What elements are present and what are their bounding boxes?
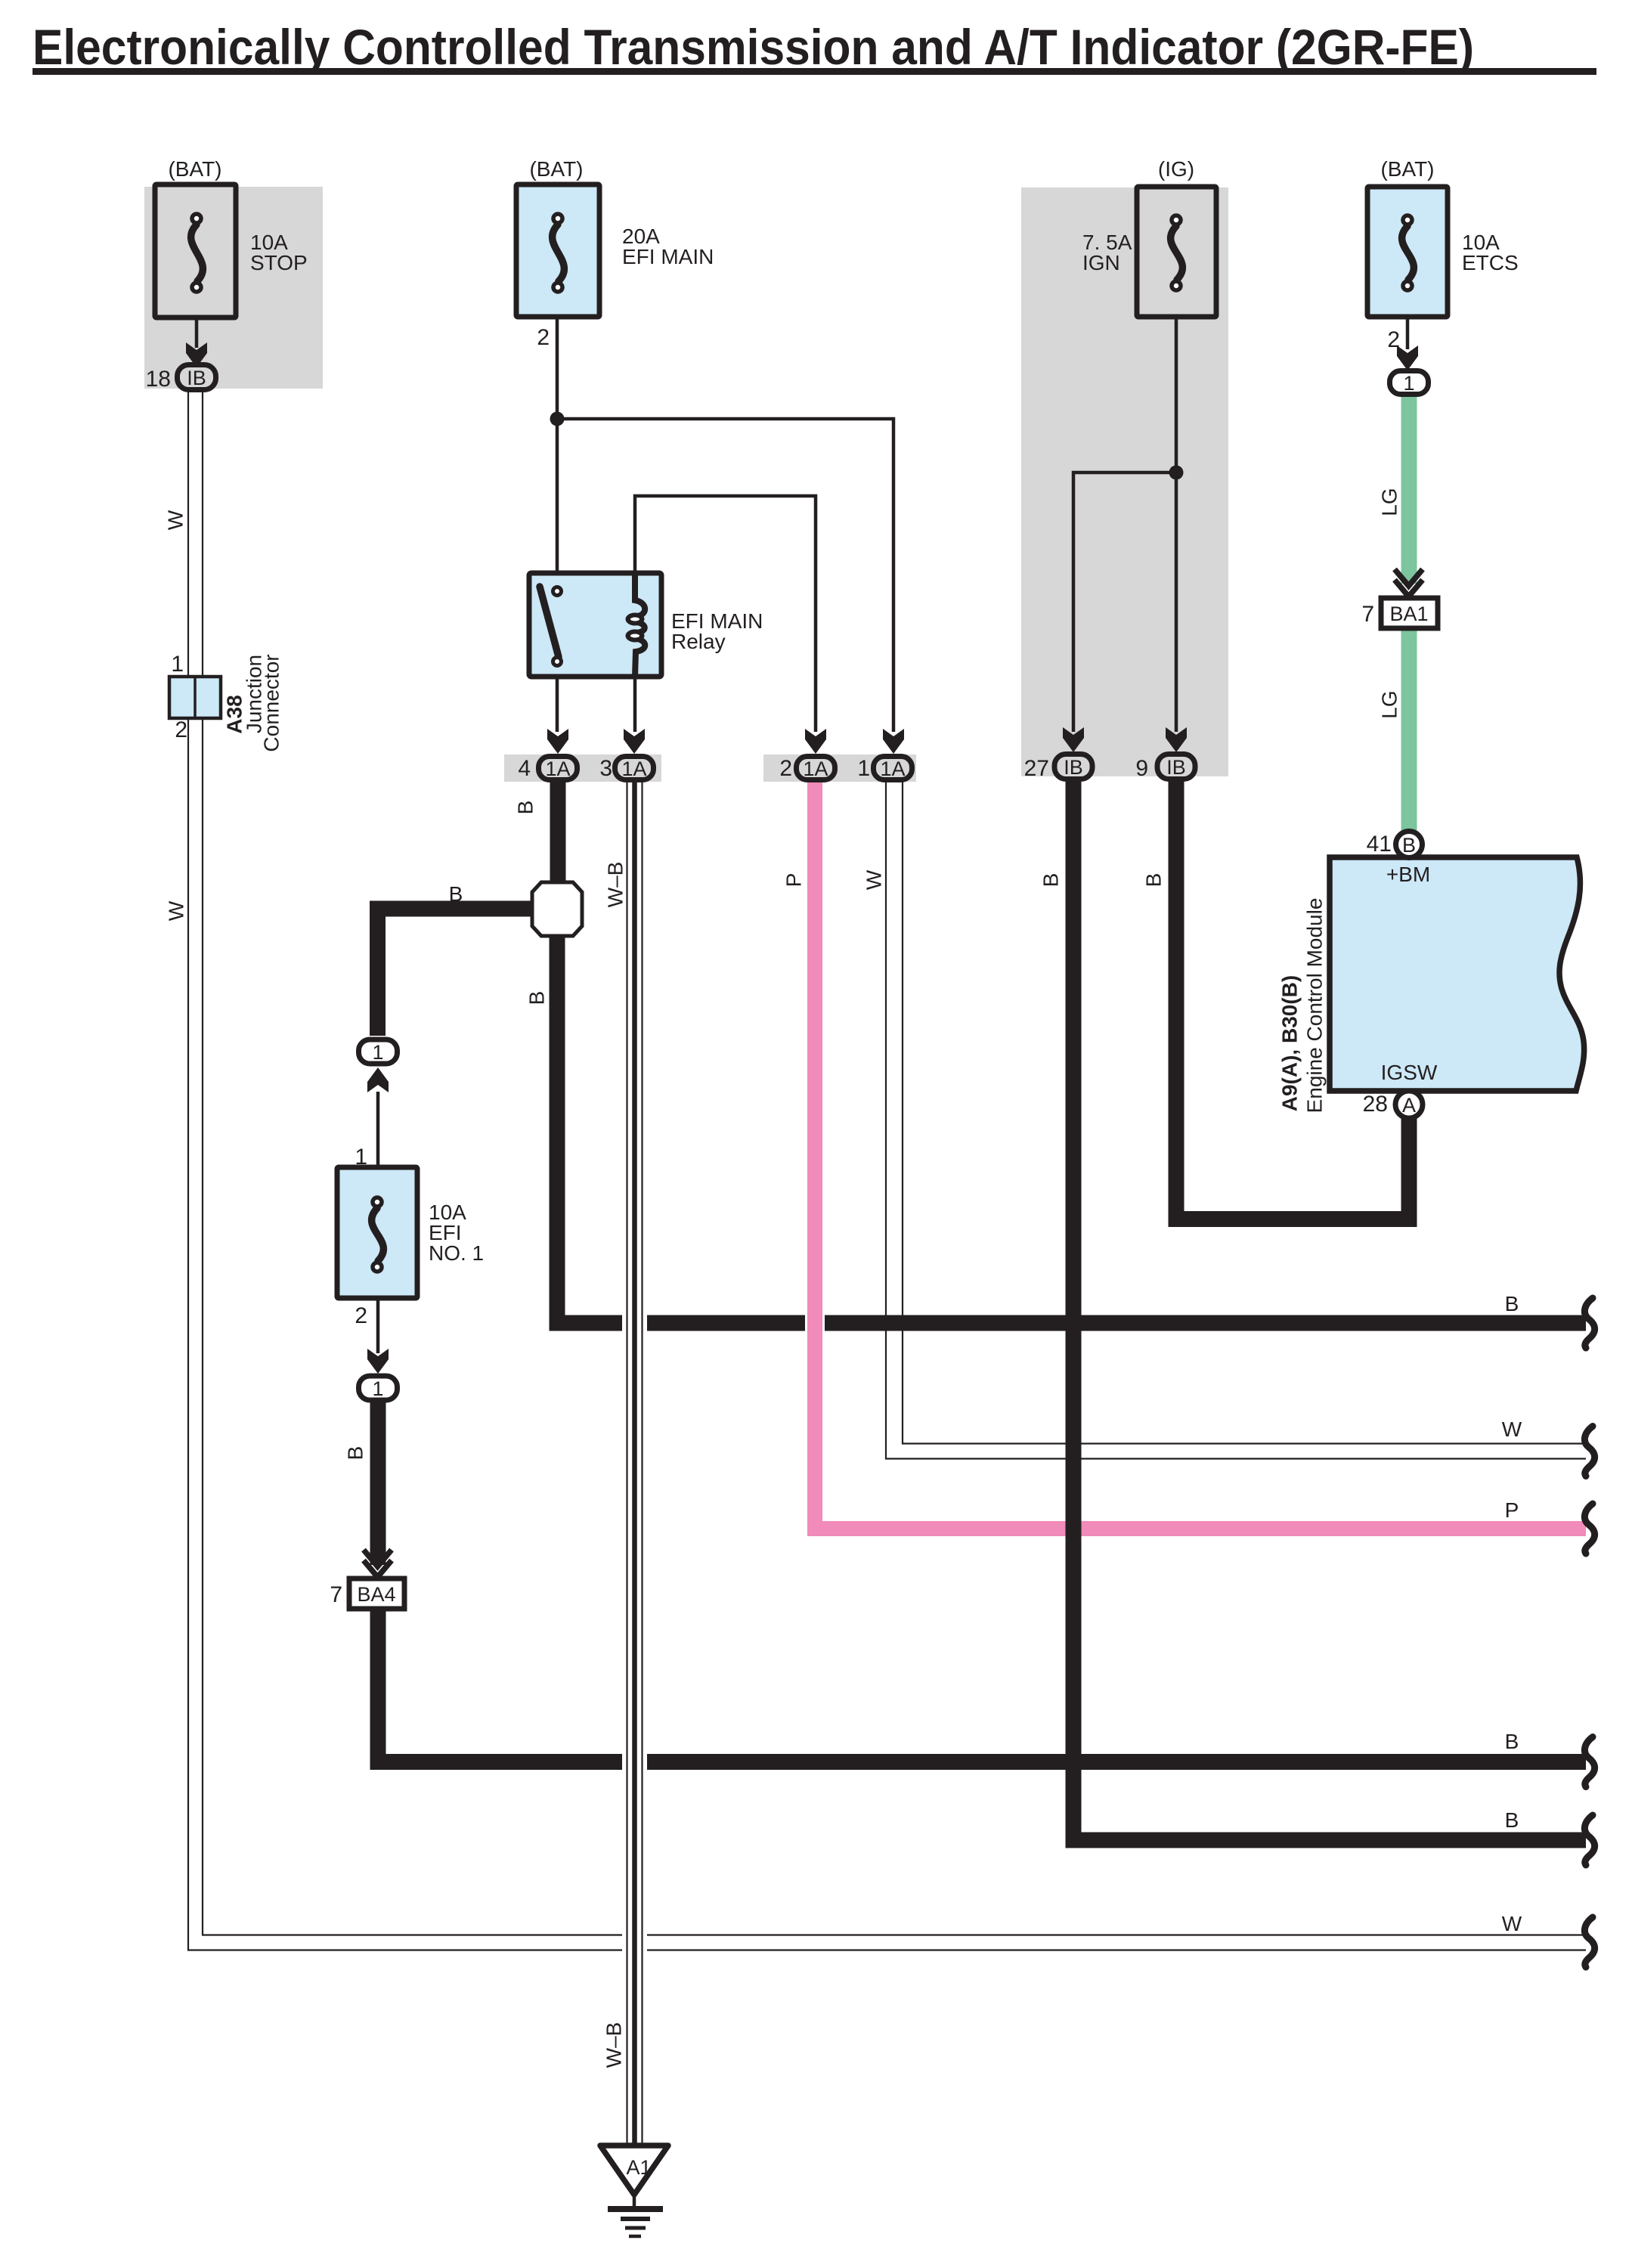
svg-text:W: W xyxy=(1502,1912,1522,1935)
svg-text:W–B: W–B xyxy=(602,2022,625,2068)
arrow into connector 1 below ETCS fuse xyxy=(1397,345,1418,370)
wire from ETCS fuse pin 2 to connector 1 xyxy=(1406,315,1410,349)
svg-text:A: A xyxy=(1402,1094,1416,1117)
svg-text:1A: 1A xyxy=(803,758,828,780)
double chevron into BA1 xyxy=(1395,569,1423,586)
svg-text:NO. 1: NO. 1 xyxy=(429,1241,484,1265)
ground bar 4 xyxy=(629,2235,641,2239)
connector BA4 box xyxy=(349,1579,404,1609)
ECM: Engine Control Module box xyxy=(1330,857,1584,1091)
svg-text:1A: 1A xyxy=(880,758,905,780)
svg-text:A1: A1 xyxy=(626,2156,651,2179)
wire P white outline xyxy=(815,780,1586,1529)
svg-text:1: 1 xyxy=(355,1145,367,1170)
svg-text:B: B xyxy=(1402,834,1416,857)
title underline xyxy=(33,68,1596,75)
wire LG from BA1 to ECM pin 41 xyxy=(1401,629,1417,832)
wire from relay switch bottom to connector 1A pin 4 xyxy=(556,675,559,732)
connector oval IB pin 18 xyxy=(178,365,216,390)
arrow into connector 1 below EFI NO.1 fuse xyxy=(367,1349,389,1374)
connector oval 1A pin 1 xyxy=(874,757,912,780)
svg-text:1A: 1A xyxy=(545,758,570,780)
wire W-B black stripe xyxy=(632,780,637,2146)
fuse 10A ETCS xyxy=(1367,187,1448,317)
svg-text:IGSW: IGSW xyxy=(1381,1061,1438,1084)
svg-text:(BAT): (BAT) xyxy=(1380,157,1434,181)
wire B branch from octagon left, down to connector 1 xyxy=(378,909,536,1036)
wire from IGN fuse down to connector IB pin 9 xyxy=(1175,315,1178,732)
arrow into connector 1A pin 2 xyxy=(805,729,826,754)
ground bar 2 xyxy=(621,2217,650,2221)
svg-text:2: 2 xyxy=(1387,327,1400,352)
svg-text:IB: IB xyxy=(187,367,206,389)
svg-text:W–B: W–B xyxy=(603,862,627,908)
svg-text:B: B xyxy=(1039,873,1062,888)
connector oval 1 below EFI NO.1 xyxy=(359,1376,398,1400)
svg-text:IB: IB xyxy=(1166,756,1186,779)
svg-text:41: 41 xyxy=(1367,832,1392,857)
svg-text:1: 1 xyxy=(171,652,184,677)
svg-text:1: 1 xyxy=(1403,372,1414,395)
wire W from IB pin 18 down and right to edge (right line) xyxy=(203,391,1586,1935)
wire break squiggle W line xyxy=(1584,1427,1594,1476)
arrow into connector 1A pin 1 xyxy=(883,729,904,754)
wire from EFI MAIN fuse pin 2 down to EFI MAIN relay switch xyxy=(556,315,559,575)
svg-text:27: 27 xyxy=(1024,756,1049,781)
svg-text:B: B xyxy=(513,801,537,815)
wire W from IB pin 18 down and right to edge (left line) xyxy=(188,391,1586,1950)
connector oval 1 below ETCS xyxy=(1390,371,1429,395)
wire B from octagon junction down then right to edge xyxy=(557,931,1586,1323)
relay switch top contact xyxy=(553,587,562,596)
svg-text:Electronically Controlled Tran: Electronically Controlled Transmission a… xyxy=(33,19,1474,75)
wire from EFI NO.1 fuse pin 2 to connector 1 xyxy=(376,1297,380,1353)
arrow into connector 1 above EFI NO.1 fuse xyxy=(367,1067,389,1092)
svg-text:Relay: Relay xyxy=(671,630,726,653)
arrow into connector IB pin 27 xyxy=(1063,727,1084,752)
svg-text:9: 9 xyxy=(1135,756,1148,781)
svg-text:STOP: STOP xyxy=(250,251,308,274)
junction node on IGN feed xyxy=(1169,466,1184,480)
gray panel: IGN fuse block xyxy=(1021,187,1228,776)
svg-text:IGN: IGN xyxy=(1082,251,1120,274)
wire from STOP fuse to connector IB pin 18 xyxy=(195,316,199,348)
svg-text:4: 4 xyxy=(518,756,531,781)
svg-text:(IG): (IG) xyxy=(1158,157,1194,181)
svg-text:(BAT): (BAT) xyxy=(529,157,583,181)
svg-text:EFI MAIN: EFI MAIN xyxy=(622,245,714,268)
ECM pin 41 circle B xyxy=(1396,832,1423,858)
svg-text:B: B xyxy=(343,1446,367,1461)
connector oval 1A pin 2 xyxy=(797,757,835,780)
svg-text:7: 7 xyxy=(330,1582,342,1607)
relay coil xyxy=(635,573,645,616)
arrow into connector IB pin 9 xyxy=(1166,727,1187,752)
gray strip: connector 1A row left xyxy=(504,754,661,782)
connector oval 1A pin 4 xyxy=(539,757,578,780)
svg-text:2: 2 xyxy=(537,325,550,350)
wire W-B left line xyxy=(626,780,627,2146)
wire branch from IGN node to connector IB pin 27 xyxy=(1073,472,1176,732)
gray strip: connector 1A row right xyxy=(763,754,916,782)
wire W-B right line xyxy=(641,780,643,2146)
connector BA1 box xyxy=(1381,598,1438,628)
wire from relay coil bottom to connector 1A pin 3 xyxy=(633,675,637,732)
svg-text:B: B xyxy=(1505,1730,1519,1753)
wire W from connector 1A pin 1 down and right to edge (right line) xyxy=(903,780,1586,1444)
svg-text:B: B xyxy=(525,991,548,1005)
svg-text:A9(A), B30(B): A9(A), B30(B) xyxy=(1277,975,1301,1111)
svg-text:W: W xyxy=(1502,1417,1522,1441)
ground stem xyxy=(633,2193,636,2206)
svg-text:P: P xyxy=(1505,1498,1519,1522)
svg-text:18: 18 xyxy=(146,367,171,392)
relay switch bottom contact xyxy=(553,658,562,666)
wire B from connector 1 to BA4 chevron xyxy=(370,1402,386,1565)
junction connector A38 divider xyxy=(194,677,197,718)
wire break squiggle B line 3 xyxy=(1584,1815,1594,1865)
junction connector A38 xyxy=(169,677,221,718)
svg-text:1: 1 xyxy=(372,1377,383,1400)
fuse 10A STOP xyxy=(155,184,236,318)
svg-text:P: P xyxy=(782,873,805,888)
svg-text:2: 2 xyxy=(175,717,187,742)
connector oval 1A pin 3 xyxy=(615,757,654,780)
svg-text:BA1: BA1 xyxy=(1389,603,1428,625)
fuse 7.5A IGN xyxy=(1137,187,1216,317)
arrow into connector 1A pin 4 xyxy=(547,729,568,754)
wire B from BA4 down then right to edge xyxy=(378,1609,1586,1762)
wire branch from node to connector 1A pin 1 xyxy=(557,419,893,732)
arrow into connector 1A pin 3 xyxy=(624,729,645,754)
connector oval IB pin 27 xyxy=(1054,754,1092,779)
svg-text:B: B xyxy=(1505,1292,1519,1315)
double chevron into BA4 xyxy=(364,1550,392,1566)
svg-text:1: 1 xyxy=(372,1041,383,1064)
junction node on EFI MAIN feed xyxy=(550,412,565,426)
wire B from connector 1A pin 4 to octagon junction xyxy=(550,780,566,886)
svg-text:B: B xyxy=(449,882,463,906)
svg-text:W: W xyxy=(164,900,187,921)
wire from connector 1 to EFI NO.1 fuse pin 1 xyxy=(376,1092,380,1169)
gray panel: STOP fuse block xyxy=(144,187,323,389)
svg-text:W: W xyxy=(862,869,885,890)
wire break squiggle B line 1 xyxy=(1584,1298,1594,1348)
svg-text:IB: IB xyxy=(1064,756,1083,779)
wire break squiggle P line xyxy=(1584,1504,1594,1554)
svg-text:28: 28 xyxy=(1363,1092,1388,1117)
svg-text:1A: 1A xyxy=(621,758,646,780)
svg-text:2: 2 xyxy=(779,756,792,781)
svg-text:LG: LG xyxy=(1377,690,1401,718)
wire break squiggle W line 2 xyxy=(1584,1917,1594,1967)
svg-text:7: 7 xyxy=(1361,602,1374,627)
relay switch blade xyxy=(540,587,559,657)
connector oval IB pin 9 xyxy=(1157,754,1195,779)
svg-text:B: B xyxy=(1141,873,1165,888)
ECM pin 28 circle A xyxy=(1395,1091,1423,1118)
wire break squiggle B line 2 xyxy=(1584,1737,1594,1787)
svg-text:2: 2 xyxy=(355,1303,367,1328)
connector oval 1 above EFI NO.1 xyxy=(359,1039,398,1064)
svg-text:LG: LG xyxy=(1377,488,1401,516)
wire from relay coil top to connector 1A pin 2 xyxy=(635,496,816,732)
svg-text:W: W xyxy=(163,510,187,530)
ground A1 triangle xyxy=(600,2146,668,2195)
svg-text:ETCS: ETCS xyxy=(1462,251,1519,274)
svg-text:BA4: BA4 xyxy=(357,1583,395,1606)
wire W from connector 1A pin 1 down and right to edge (left line) xyxy=(886,780,1586,1459)
svg-text:Engine Control Module: Engine Control Module xyxy=(1302,898,1326,1114)
octagon splice junction xyxy=(532,882,582,936)
ground bar 3 xyxy=(625,2226,646,2230)
wire LG from connector 1 to BA1 xyxy=(1401,394,1417,584)
svg-text:1: 1 xyxy=(857,756,870,781)
svg-text:Connector: Connector xyxy=(259,654,283,751)
fuse 10A EFI NO.1 xyxy=(337,1167,417,1298)
wire P from connector 1A pin 2 down then right to edge xyxy=(815,780,1586,1529)
wire B from connector IB pin 9 down, right, up to ECM pin 28 xyxy=(1176,780,1409,1219)
wire B from connector IB pin 27 down then right to edge xyxy=(1073,780,1586,1840)
svg-text:3: 3 xyxy=(599,756,612,781)
wire W-B white outline xyxy=(622,783,647,2144)
relay EFI MAIN xyxy=(529,573,661,677)
ground bar 1 xyxy=(608,2206,663,2212)
svg-text:B: B xyxy=(1505,1808,1519,1832)
fuse 20A EFI MAIN xyxy=(516,184,599,317)
arrow into connector IB pin 18 xyxy=(186,342,207,367)
svg-text:(BAT): (BAT) xyxy=(168,157,221,181)
svg-text:+BM: +BM xyxy=(1386,863,1430,886)
